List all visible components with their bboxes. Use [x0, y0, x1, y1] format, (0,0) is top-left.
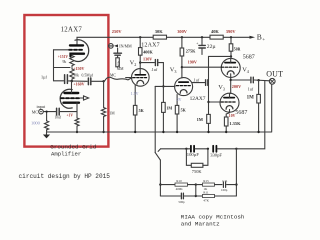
- svg-text:R11: R11: [203, 191, 209, 195]
- switch contact tick: [158, 149, 161, 152]
- ground bottom rail wire: [47, 131, 272, 133]
- svg-text:30k: 30k: [73, 74, 79, 78]
- wire node down: [103, 81, 105, 107]
- wire V3 plate to coupling cap: [192, 82, 204, 84]
- wire plate output: [72, 80, 87, 82]
- svg-text:+1V: +1V: [67, 113, 74, 117]
- svg-text:input: input: [37, 104, 46, 109]
- wire to V3 plate: [181, 56, 183, 78]
- tube V3 5687 envelope: [220, 93, 239, 112]
- V4 grid dashed: [222, 66, 238, 68]
- tube V4 envelope: [221, 58, 240, 77]
- capacitor 10uf (input): [56, 108, 58, 115]
- wire resistor to ground rail: [103, 117, 105, 132]
- MM input cap: [117, 48, 119, 53]
- wire plate tap to cap: [140, 62, 154, 64]
- wire RIAA left drop: [159, 160, 161, 196]
- svg-text:0.5Mµf: 0.5Mµf: [82, 73, 94, 77]
- wire mid node vertical: [195, 185, 197, 196]
- resistor 1.35K: [224, 117, 228, 126]
- svg-text:30K: 30K: [155, 29, 163, 34]
- svg-text:275K: 275K: [186, 49, 196, 54]
- svg-text:9k: 9k: [63, 60, 67, 64]
- svg-text:Amplifier: Amplifier: [51, 150, 81, 157]
- resistor R11 47K: [196, 195, 203, 197]
- svg-text:400K: 400K: [176, 187, 184, 191]
- svg-text:10V: 10V: [229, 114, 236, 118]
- triode V1b envelope: [60, 89, 72, 108]
- svg-text:12AX7: 12AX7: [190, 96, 206, 102]
- V2 plate bar: [135, 74, 145, 76]
- svg-text:and Marantz: and Marantz: [181, 221, 220, 228]
- svg-text:+: +: [262, 38, 265, 43]
- wire feedback mid rung: [54, 67, 71, 69]
- svg-text:1M: 1M: [247, 96, 255, 101]
- svg-text:RIAA copy McIntosh: RIAA copy McIntosh: [181, 214, 245, 221]
- resistor 5K (V3 cathode): [175, 105, 179, 114]
- resistor 50R: [229, 44, 233, 51]
- node rail to 275K: [181, 36, 183, 38]
- capacitor C13: [160, 195, 180, 197]
- ground symbol: [46, 132, 48, 135]
- wire RIAA top: [161, 148, 187, 150]
- wire coupling node down: [208, 83, 210, 115]
- V3 grid dashed: [176, 85, 191, 87]
- capacitor 100pF: [190, 146, 192, 152]
- svg-text:3: 3: [174, 69, 176, 74]
- V3b plate bar: [224, 97, 234, 99]
- svg-text:2: 2: [134, 62, 136, 67]
- wire cathode lead: [76, 103, 78, 118]
- node grid junction: [162, 85, 164, 87]
- wire input to cap: [43, 111, 55, 113]
- wire RIAA to rail: [236, 81, 264, 149]
- svg-text:1.35K: 1.35K: [229, 121, 241, 126]
- svg-text:OUT: OUT: [266, 69, 283, 78]
- wire squiggle MC link to V2: [105, 77, 132, 81]
- resistor 1M (grid leak): [162, 86, 164, 102]
- svg-text:750K: 750K: [192, 169, 203, 174]
- wire RIAA lower drop: [235, 149, 237, 196]
- V1b plate lead wire: [71, 81, 73, 93]
- V2 cathode hook: [137, 80, 144, 84]
- svg-text:1µf: 1µf: [41, 75, 48, 80]
- svg-text:MC: MC: [110, 74, 116, 78]
- svg-text:1M: 1M: [197, 117, 204, 122]
- capacitor 0.5Mµf (output coupling): [87, 78, 89, 85]
- svg-text:1M: 1M: [166, 106, 172, 111]
- svg-text:IN/MM: IN/MM: [119, 43, 132, 48]
- V4 cathode hook: [227, 71, 234, 75]
- resistor 1M (5687 grid): [207, 114, 211, 123]
- V3 plate bar: [179, 81, 188, 83]
- svg-text:12AX7: 12AX7: [61, 26, 83, 33]
- node junction: [102, 80, 104, 82]
- switch blade: [155, 153, 160, 160]
- V3b grid dashed: [221, 101, 236, 103]
- svg-text:12AX7: 12AX7: [141, 43, 160, 49]
- svg-text:200V: 200V: [232, 84, 241, 89]
- resistor 1M (output load): [258, 80, 260, 94]
- svg-text:3: 3: [223, 86, 225, 91]
- wire grid node to V3 grid: [163, 85, 175, 87]
- svg-text:R10: R10: [176, 179, 182, 183]
- svg-text:5K: 5K: [139, 108, 145, 113]
- wire out branch: [231, 79, 250, 81]
- svg-text:22µ: 22µ: [207, 44, 217, 50]
- V1b plate bar: [65, 92, 79, 94]
- svg-text:.1uf: .1uf: [151, 67, 158, 72]
- svg-text:190V: 190V: [188, 59, 197, 64]
- svg-text:1.5V: 1.5V: [131, 91, 139, 96]
- highlight box around grounded-grid stage: [24, 15, 108, 147]
- resistor R15 1K: [196, 184, 203, 186]
- capacitor 330pF: [212, 146, 214, 152]
- resistor 275K: [180, 48, 184, 56]
- svg-text:500p: 500p: [178, 200, 185, 204]
- svg-text:R15: R15: [203, 179, 209, 183]
- V3 cathode wire: [176, 95, 178, 106]
- wire cap to node: [92, 80, 104, 82]
- wire cap to OUT jack: [254, 79, 270, 82]
- svg-text:2V: 2V: [177, 97, 182, 102]
- resistor 1000 (input load): [44, 120, 48, 130]
- resistor R10 400K: [160, 184, 175, 186]
- V1a grid (dashed): [69, 49, 83, 51]
- V4 plate bar: [225, 62, 235, 64]
- svg-text:MM: MM: [117, 67, 124, 71]
- wire to V2 plate: [139, 55, 141, 74]
- svg-text:Grounded-Grid: Grounded-Grid: [50, 143, 96, 150]
- tube V3 envelope: [175, 78, 193, 96]
- resistor 40K (rail): [210, 35, 223, 39]
- wire grid node left: [155, 85, 163, 87]
- wire V3b cathode: [226, 109, 229, 117]
- svg-text:390V: 390V: [226, 29, 237, 34]
- svg-text:+151V: +151V: [58, 55, 69, 59]
- V2 cathode wire: [134, 85, 136, 105]
- V3b cathode hook: [226, 106, 233, 110]
- capacitor 1uf (output): [250, 77, 252, 83]
- B+ top rail wire: [77, 37, 251, 45]
- node plate tap: [139, 61, 141, 63]
- svg-text:5K: 5K: [181, 107, 187, 112]
- svg-text:+: +: [196, 41, 198, 45]
- capacitor 1uf (feedback): [64, 75, 66, 84]
- V3 cathode hook: [180, 90, 187, 94]
- wire 5687 lower grid: [209, 101, 222, 103]
- svg-text:47K: 47K: [203, 198, 209, 202]
- svg-text:+160V: +160V: [73, 81, 84, 86]
- V1b grid (dashed): [61, 97, 79, 99]
- node junction dot +160V: [71, 80, 74, 83]
- capacitor 22u (B+ filter): [201, 36, 203, 38]
- node V3 plate / V4 grid: [181, 66, 183, 68]
- wire OUT to rail: [271, 84, 273, 131]
- wire V4 grid line: [182, 66, 221, 68]
- node 5687 grid: [207, 101, 209, 103]
- svg-text:5687: 5687: [235, 110, 247, 116]
- svg-text:250V: 250V: [112, 29, 123, 34]
- svg-text:50R: 50R: [234, 48, 241, 52]
- node rail to 50R: [230, 36, 232, 38]
- V1a cathode bar: [71, 54, 85, 57]
- wire input shunt down: [46, 112, 48, 121]
- B+ arrow and label: [250, 36, 256, 39]
- resistor 400K: [139, 48, 143, 56]
- svg-text:B: B: [257, 33, 262, 42]
- svg-text:1M: 1M: [109, 111, 115, 115]
- triode V1a envelope: [75, 40, 89, 62]
- svg-text:MC: MC: [32, 110, 39, 115]
- svg-text:1uf: 1uf: [248, 86, 254, 91]
- svg-text:100p: 100p: [221, 188, 228, 192]
- wire to rail: [76, 127, 78, 133]
- svg-text:130V: 130V: [143, 57, 152, 62]
- svg-text:5687: 5687: [243, 54, 255, 60]
- resistor 30K (rail): [153, 35, 166, 39]
- wire feedback left vertical: [53, 50, 55, 81]
- wire to rail left end: [46, 130, 48, 132]
- resistor 9k (upper cathode): [70, 55, 74, 68]
- svg-text:300V: 300V: [177, 29, 188, 34]
- wire RIAA feedback drop: [154, 86, 156, 152]
- node rail to 400K: [139, 36, 141, 38]
- wire feedback bottom rung: [54, 80, 64, 82]
- resistor (cathode bias): [75, 118, 79, 127]
- svg-text:330pF: 330pF: [210, 153, 222, 158]
- svg-text:10uf: 10uf: [55, 115, 62, 119]
- tube V2 envelope: [132, 69, 150, 87]
- svg-text:400K: 400K: [143, 49, 153, 54]
- V1b cathode bar: [64, 102, 80, 104]
- svg-text:40K: 40K: [211, 29, 219, 34]
- V1b grid arrow: [79, 97, 84, 99]
- resistor 1M (load): [101, 107, 105, 117]
- svg-text:1000: 1000: [31, 121, 41, 126]
- V2 grid dashed: [133, 77, 147, 79]
- resistor 30k (lower): [70, 68, 74, 79]
- wire cap to grid node: [159, 63, 164, 87]
- capacitor .1uf (V3 to 5687): [205, 80, 207, 86]
- capacitor .1uf (V2 to V3): [154, 60, 156, 66]
- wire V1a grid to feedback loop: [54, 49, 70, 51]
- wire V4 plate feedback: [209, 56, 232, 82]
- svg-text:100µF: 100µF: [187, 152, 200, 157]
- svg-text:circuit design by HP 2015: circuit design by HP 2015: [19, 173, 111, 180]
- svg-text:.1uf: .1uf: [193, 78, 200, 83]
- wire V4 cathode down to V3 plate: [230, 74, 232, 94]
- IN/MM connector: [109, 44, 114, 49]
- V1a plate bar: [70, 44, 83, 46]
- resistor 750K (parallel loop): [186, 149, 191, 166]
- resistor MM load: [116, 58, 120, 67]
- wire cap to cathode: [60, 111, 77, 113]
- resistor 5K (V2 cathode): [133, 105, 137, 115]
